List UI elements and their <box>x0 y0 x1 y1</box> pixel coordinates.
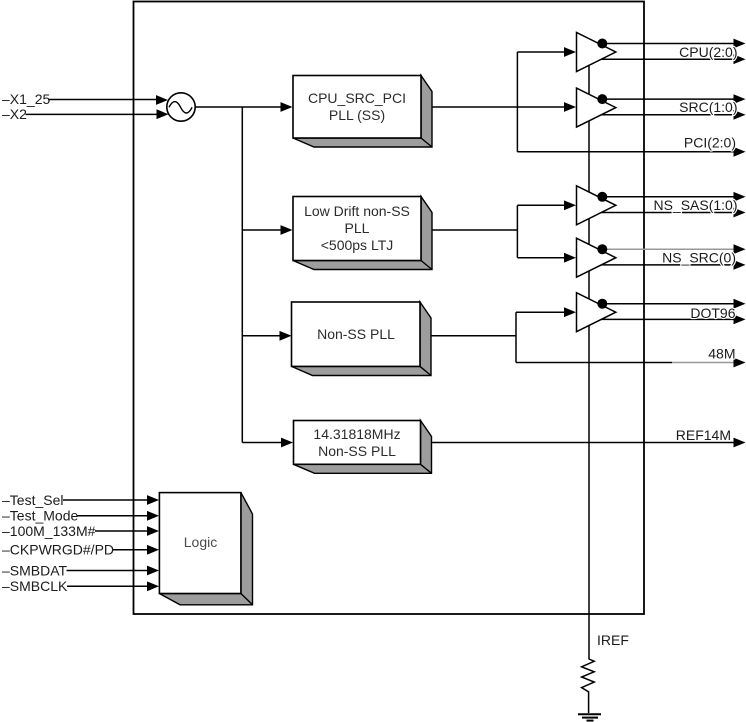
svg-text:REF14M: REF14M <box>676 427 731 443</box>
svg-text:Non-SS PLL: Non-SS PLL <box>318 443 396 459</box>
svg-text:14.31818MHz: 14.31818MHz <box>313 426 400 442</box>
svg-text:Logic: Logic <box>184 534 217 550</box>
svg-text:–SMBDAT: –SMBDAT <box>2 562 68 578</box>
svg-text:–X1_25: –X1_25 <box>2 91 50 107</box>
svg-text:–Test_Sel: –Test_Sel <box>2 492 63 508</box>
svg-text:Low Drift non-SS: Low Drift non-SS <box>304 203 410 219</box>
svg-text:PCI(2:0): PCI(2:0) <box>684 135 736 151</box>
svg-text:NS_SAS(1:0): NS_SAS(1:0) <box>653 197 737 213</box>
svg-text:NS_SRC(0): NS_SRC(0) <box>662 249 736 265</box>
svg-text:DOT96: DOT96 <box>690 305 735 321</box>
svg-text:–SMBCLK: –SMBCLK <box>2 578 68 594</box>
svg-text:PLL: PLL <box>345 220 370 236</box>
svg-text:48M: 48M <box>708 346 735 362</box>
svg-text:Non-SS PLL: Non-SS PLL <box>317 326 395 342</box>
svg-text:–Test_Mode: –Test_Mode <box>2 508 78 524</box>
svg-text:IREF: IREF <box>597 632 629 648</box>
svg-text:–CKPWRGD#/PD: –CKPWRGD#/PD <box>2 542 114 558</box>
svg-text:–100M_133M#: –100M_133M# <box>2 523 96 539</box>
svg-text:<500ps LTJ: <500ps LTJ <box>321 237 394 253</box>
svg-text:PLL (SS): PLL (SS) <box>329 107 385 123</box>
svg-text:SRC(1:0): SRC(1:0) <box>679 99 737 115</box>
svg-text:CPU(2:0): CPU(2:0) <box>679 44 737 60</box>
svg-text:–X2: –X2 <box>2 106 27 122</box>
svg-text:CPU_SRC_PCI: CPU_SRC_PCI <box>308 90 406 106</box>
